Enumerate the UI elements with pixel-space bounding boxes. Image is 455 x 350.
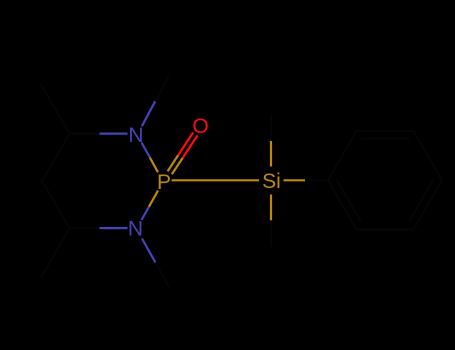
phenyl ring xyxy=(328,131,442,230)
bond N2-methyl blue half xyxy=(142,239,155,263)
bond iPr2 CH-CH3 upper xyxy=(41,179,70,228)
bond P-Si xyxy=(172,179,260,181)
bond N2-methyl carbon half xyxy=(155,263,168,287)
svg-text:Si: Si xyxy=(262,170,281,193)
bond Si-methyl down carbon half xyxy=(270,220,272,246)
svg-text:O: O xyxy=(192,115,208,138)
bond N2-isopropyl CH carbon half xyxy=(70,227,100,229)
bond N1-methyl carbon half xyxy=(155,77,168,102)
bond iPr1 CH-CH3 upper xyxy=(41,85,70,134)
phenyl inner double bond 1 xyxy=(361,138,409,140)
svg-text:P: P xyxy=(157,171,171,194)
bond N1-iPr blue half xyxy=(100,133,128,135)
bond iPr2 CH-CH3 lower xyxy=(41,228,70,277)
bond N1-isopropyl CH carbon half xyxy=(70,133,100,135)
bond N2-iPr blue half xyxy=(100,227,128,229)
bond Si-phenyl carbon half xyxy=(305,179,328,181)
bond Si-methyl up carbon half xyxy=(270,116,272,142)
bond P=O double bond gold halves xyxy=(168,155,183,174)
bond Si-methyl up gold half xyxy=(270,141,272,167)
bond P-N2 blue half xyxy=(142,207,149,220)
phenyl inner double bond 3 xyxy=(337,180,361,222)
wire: carbon skeleton (dark) xyxy=(41,77,442,287)
bond P-N1 blue half xyxy=(142,143,150,158)
svg-text:N: N xyxy=(128,124,143,147)
svg-text:N: N xyxy=(128,218,143,241)
bond Si-methyl down gold half xyxy=(270,195,272,221)
bond N1-methyl blue half xyxy=(142,101,155,126)
bond iPr1 CH-CH3 lower xyxy=(41,134,70,183)
phenyl inner double bond 2 xyxy=(409,180,433,222)
bond P-N2 gold half xyxy=(149,191,158,207)
bond Si-phenyl gold half xyxy=(284,179,306,181)
bond P=O double bond red halves xyxy=(178,133,197,158)
bond P-N1 gold half xyxy=(150,157,158,172)
